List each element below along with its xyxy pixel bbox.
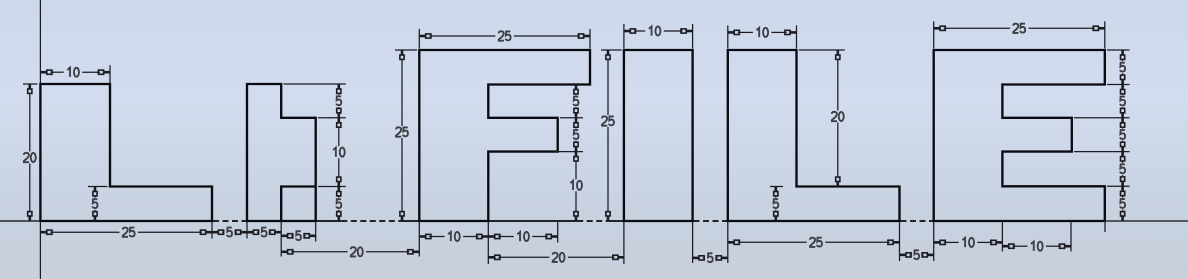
ext F top right (589, 29, 591, 49)
ext below F stem right (487, 222, 489, 264)
ground dashed gap I-L4 (694, 220, 728, 222)
ext below b2 left (246, 222, 248, 239)
letter L4 outline (728, 50, 900, 221)
dim 5 E bar1 (1121, 50, 1124, 55)
ext L4 top left (727, 25, 729, 48)
tick E stack y186.3 (1107, 185, 1130, 187)
ground dashed gap L1-b2 (213, 220, 246, 222)
dim 20 below F (488, 256, 494, 259)
ext below b2 mid (280, 222, 282, 257)
dim 20 left of L1 (28, 84, 31, 89)
dim 10 below E midbar (1002, 245, 1008, 248)
tick E stack y151.6 (1074, 151, 1130, 153)
ground dashed gap L4-E (901, 220, 934, 222)
dim 5 gap L1-b2 (212, 231, 218, 234)
ground solid before F (401, 220, 420, 222)
tick I dim25 top (601, 49, 622, 51)
dim 10 below F stem (419, 235, 425, 238)
ext E top right (1104, 21, 1106, 48)
ground line left of L1 (0, 220, 40, 222)
ext below F arm2 right (557, 222, 559, 243)
dim 25 top of E (934, 27, 940, 30)
tick L1 dim20 top (23, 83, 38, 85)
ext below I left (623, 222, 625, 264)
dim 10 top of L1 (40, 71, 46, 74)
ext stub below E right (1104, 222, 1106, 232)
dim 5 E notch1 (1121, 85, 1124, 90)
dim 5 F gap1 (575, 85, 578, 90)
ext L4 top right (796, 25, 798, 48)
ext below E stem right (1001, 222, 1003, 252)
ext below L1 right (211, 222, 213, 239)
tick L1 dim5 top (88, 186, 108, 188)
dim 5 L1 arm (94, 187, 97, 192)
tick F stack y117.8 (560, 117, 583, 119)
ext L1 top right (109, 65, 111, 83)
dim 5 b2 bottom (337, 187, 340, 192)
tick F stack y151.6 (555, 151, 583, 153)
tick E stack y84.5 (1107, 84, 1130, 86)
ground line right of E (1105, 220, 1188, 222)
dim 10 top of I (624, 30, 630, 33)
ground dashed gap F-I (577, 220, 607, 222)
ext F top left (418, 29, 420, 49)
ext below E left (933, 222, 935, 261)
dim 5 gap I-L4 (693, 257, 699, 260)
dim 10 F below arm2 (575, 152, 578, 157)
dim 25 left of F (401, 50, 404, 55)
dim 25 left of I (607, 50, 610, 55)
dim 5 b2 top (337, 84, 340, 89)
ext E top left (933, 21, 935, 48)
dim 25 below L4 (728, 241, 734, 244)
dim 10 top of L4 (728, 31, 734, 34)
ext below E midbar right (1070, 222, 1072, 252)
dim 20 L4 stem (836, 50, 839, 55)
ext below L4 left (727, 222, 729, 263)
dim 5 F arm2 (575, 118, 578, 123)
letter b2 inner notch (281, 187, 316, 222)
ext below L1 left (long) (39, 222, 41, 279)
ground solid F-stack (488, 220, 577, 222)
dim 5 L4 arm (774, 187, 777, 192)
dim 5 b2 right half (281, 235, 287, 238)
tick L4 dim20 top (799, 49, 845, 51)
tick E stack y50 (1107, 49, 1130, 51)
dim 5 b2 left half (247, 231, 253, 234)
ground solid b2 right (316, 220, 342, 222)
dim 10 b2 middle (337, 118, 340, 123)
ext below L4 right (899, 222, 901, 261)
ext below b2 right (315, 222, 317, 242)
ext I top left (623, 24, 625, 49)
ext I top right (692, 24, 694, 49)
dim 5 gap L4-E (900, 254, 906, 257)
ext below I right (692, 222, 694, 263)
dim 25 below L1 (40, 231, 46, 234)
dim 5 E midbar (1121, 118, 1124, 123)
dim 5 E notch2 (1121, 152, 1124, 157)
dim 20 below b2 (281, 251, 287, 254)
ext below F left (418, 222, 420, 257)
tick b2 stack y84 (284, 83, 346, 85)
dim 10 below E stem (934, 241, 940, 244)
tick E stack y117.8 (1074, 117, 1130, 119)
dim 5 E bar3 (1121, 186, 1124, 191)
ground dashed gap b2-F (341, 220, 400, 222)
tick F dim25 top (395, 49, 417, 51)
ground solid before I (608, 220, 624, 222)
letter F outline (419, 50, 590, 221)
letter I outline (624, 50, 693, 221)
letter E outline (934, 50, 1105, 221)
dim 10 below F arm (488, 235, 494, 238)
long extension line x=40.4 (39, 0, 41, 83)
letter b2 outline (247, 84, 316, 221)
dim 25 top of F (419, 35, 425, 38)
tick L4 dim5 top (770, 186, 783, 188)
letter L1 outline (40, 84, 212, 221)
tick b2 stack y117.8 (318, 117, 346, 119)
tick b2 stack y186.5 (318, 186, 346, 188)
